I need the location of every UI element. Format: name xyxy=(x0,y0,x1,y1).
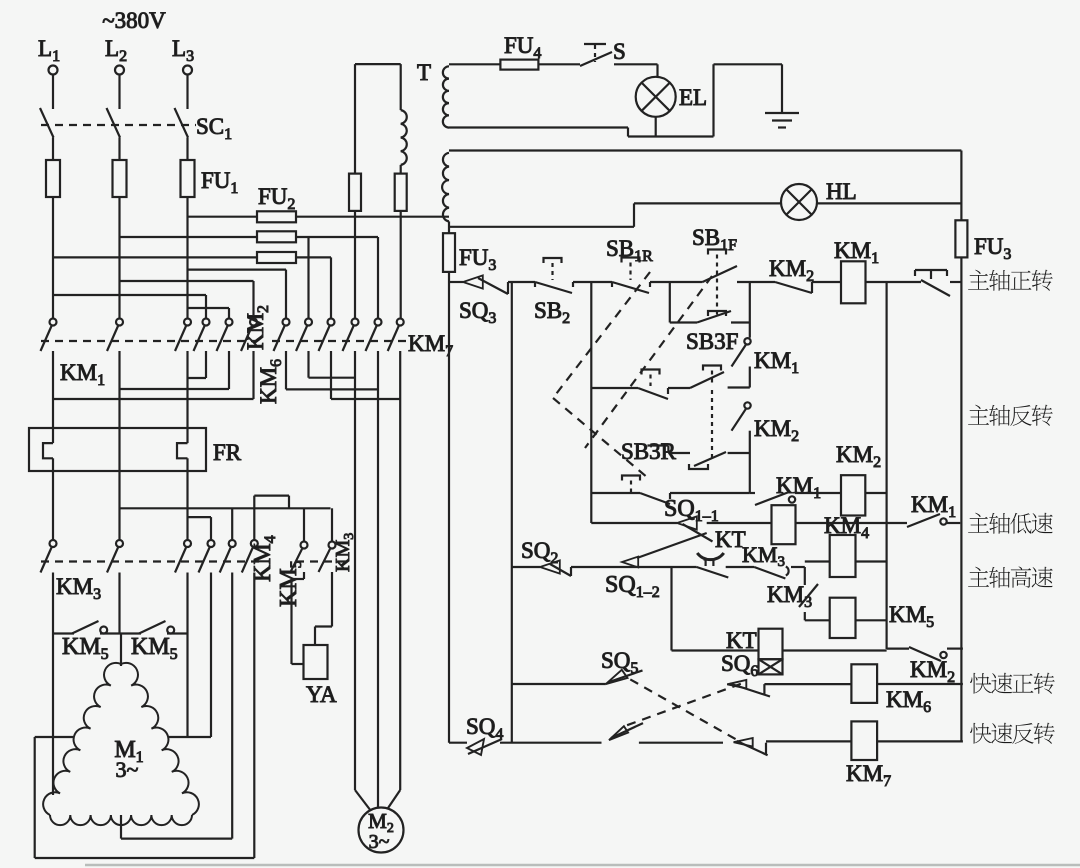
svg-text:S: S xyxy=(613,39,626,64)
svg-text:YA: YA xyxy=(306,682,337,707)
svg-text:3~: 3~ xyxy=(369,831,390,853)
svg-text:3~: 3~ xyxy=(116,757,139,782)
svg-text:T: T xyxy=(417,60,431,85)
svg-text:KT: KT xyxy=(726,628,757,653)
svg-text:~380V: ~380V xyxy=(102,8,166,33)
svg-text:FR: FR xyxy=(213,440,242,465)
svg-text:SB3F: SB3F xyxy=(686,329,738,354)
svg-text:SB3R: SB3R xyxy=(621,439,677,464)
svg-text:EL: EL xyxy=(679,85,707,110)
svg-text:HL: HL xyxy=(826,179,857,204)
